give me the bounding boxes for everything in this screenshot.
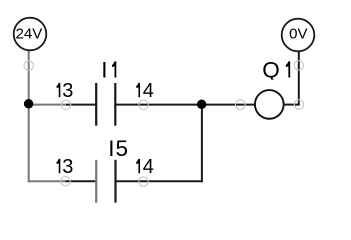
- pin label 13 of I1: [57, 80, 74, 102]
- wire junction A down to lower rung: [28, 103, 30, 182]
- power source 24V: [14, 18, 47, 51]
- contact I1 right bar: [114, 83, 116, 126]
- svg-text:4: 4: [143, 80, 154, 102]
- svg-text:5: 5: [116, 136, 129, 161]
- contact I1 left bar: [95, 83, 97, 126]
- svg-text:Q: Q: [262, 58, 280, 83]
- terminal 13 of I5: [61, 177, 70, 186]
- label I5: [108, 136, 128, 161]
- svg-text:4: 4: [143, 156, 154, 178]
- label I1: [101, 58, 116, 83]
- wire junction B to coil Q1: [202, 104, 255, 106]
- wire lower-right corner up to junction B: [201, 105, 203, 183]
- junction A (left rail): [24, 99, 33, 109]
- wire contact I1 pin 14 to junction B: [116, 104, 202, 106]
- svg-text:0V: 0V: [289, 25, 307, 42]
- pin label 14 of I1: [136, 80, 154, 102]
- pin label 14 of I5: [136, 156, 154, 178]
- contact I5 right bar: [114, 160, 116, 203]
- junction B (right of I1): [197, 100, 207, 110]
- svg-text:I: I: [108, 136, 114, 161]
- wire terminal 13 to contact I5 left bar: [66, 180, 96, 182]
- wire from 24V source down to junction A: [28, 51, 30, 101]
- wire contact I5 pin 14 to lower-right corner: [116, 180, 202, 182]
- pin label 13 of I5: [57, 156, 74, 178]
- wire coil Q1 to corner node: [284, 104, 299, 106]
- wire corner node up to 0V source: [298, 52, 300, 106]
- wire terminal 13 to contact I1 left bar: [66, 104, 96, 106]
- svg-text:3: 3: [62, 156, 73, 178]
- terminal 14 of I5: [139, 177, 148, 186]
- contact I5 left bar: [95, 160, 97, 203]
- label Q1: [262, 58, 290, 84]
- wire junction A to contact I1 pin 13 terminal: [29, 104, 66, 106]
- terminal on 0V drop: [294, 61, 303, 70]
- terminal 14 of I1: [139, 100, 148, 109]
- terminal left of coil Q1: [235, 100, 245, 110]
- terminal on 24V drop: [24, 61, 33, 70]
- wire lower-left corner to contact I5 pin 13 terminal: [28, 180, 66, 182]
- svg-text:24V: 24V: [16, 26, 43, 43]
- svg-text:3: 3: [62, 80, 73, 102]
- power source 0V: [282, 19, 315, 52]
- terminal 13 of I1: [61, 100, 70, 109]
- terminal right of coil Q1: [294, 100, 303, 109]
- coil Q1: [255, 90, 284, 119]
- svg-text:I: I: [101, 58, 107, 83]
